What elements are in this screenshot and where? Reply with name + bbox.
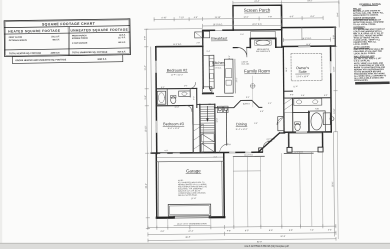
svg-text:Dining: Dining bbox=[236, 122, 247, 126]
svg-text:9' CLG.: 9' CLG. bbox=[215, 67, 222, 69]
svg-text:CLG. ABV.: CLG. ABV. bbox=[241, 62, 250, 65]
left scan margin bbox=[0, 0, 2, 249]
patio mullion line bbox=[301, 28, 303, 40]
svg-text:4'-6": 4'-6" bbox=[227, 230, 231, 232]
svg-text:SEE FIREPLACE: SEE FIREPLACE bbox=[256, 50, 271, 53]
bedroom3 east wall bbox=[192, 105, 194, 152]
sheet bottom edge line bbox=[0, 242, 390, 244]
svg-text:BUFFET: BUFFET bbox=[243, 103, 251, 105]
dim left inner line bbox=[150, 47, 153, 153]
top wall right of porch bbox=[282, 26, 335, 28]
svg-text:12'-0": 12'-0" bbox=[243, 17, 248, 19]
label owners suite bbox=[295, 66, 309, 74]
svg-text:6'-2": 6'-2" bbox=[161, 87, 165, 89]
window left wall bed2 bbox=[155, 61, 157, 73]
kitchen range bbox=[210, 73, 213, 79]
right wall upper step bbox=[334, 27, 336, 46]
owner bath vanity bbox=[294, 98, 322, 105]
door front entry bbox=[263, 141, 270, 147]
bottom scan margin bbox=[0, 243, 390, 249]
garage inner wall lines bbox=[157, 162, 159, 216]
door bedroom2 bbox=[190, 82, 196, 88]
svg-text:10'-8": 10'-8" bbox=[175, 107, 180, 109]
svg-text:SCREEN PORCH: SCREEN PORCH bbox=[72, 38, 89, 40]
stair west wall bbox=[199, 104, 201, 152]
svg-text:OPTIONAL BONUS: OPTIONAL BONUS bbox=[9, 39, 28, 42]
entry top jog bbox=[280, 132, 285, 134]
porch right wall vertical bbox=[280, 5, 282, 47]
dim bottom first line bbox=[148, 226, 336, 228]
entry diagonal wall bbox=[258, 133, 280, 152]
owner left wall bbox=[282, 47, 285, 132]
patio edge below dining bbox=[233, 170, 260, 172]
svg-text:6'-8": 6'-8" bbox=[260, 111, 264, 113]
svg-text:8'-0": 8'-0" bbox=[245, 230, 249, 232]
svg-text:LOCAL CODES.: LOCAL CODES. bbox=[354, 43, 370, 46]
dim top main line bbox=[154, 18, 323, 19]
svg-text:5'-4": 5'-4" bbox=[207, 51, 211, 53]
svg-text:4'-0": 4'-0" bbox=[160, 231, 164, 233]
svg-text:16'-0" x 8'-0" OVERHEAD DOOR: 16'-0" x 8'-0" OVERHEAD DOOR bbox=[177, 222, 207, 225]
svg-text:16'-0" R.O.: 16'-0" R.O. bbox=[302, 38, 312, 40]
mud bench box bbox=[195, 32, 203, 38]
svg-text:8'-4": 8'-4" bbox=[246, 97, 250, 99]
svg-text:9'-0": 9'-0" bbox=[229, 55, 231, 59]
svg-text:5'-0": 5'-0" bbox=[254, 123, 258, 125]
door garage entry bbox=[220, 144, 229, 153]
garage bottom wall left piece bbox=[157, 217, 174, 219]
garage door dim line bbox=[174, 224, 210, 226]
bath2 tub bbox=[157, 91, 166, 104]
svg-text:4'-0": 4'-0" bbox=[164, 150, 168, 152]
svg-text:14'-8": 14'-8" bbox=[333, 66, 335, 71]
hall east wall bbox=[225, 110, 227, 145]
svg-text:21'-8": 21'-8" bbox=[191, 198, 196, 200]
kitchen west wall bbox=[202, 30, 205, 88]
kitchen top cabinets bbox=[203, 54, 209, 56]
svg-text:FIRST FLOOR: FIRST FLOOR bbox=[9, 37, 23, 39]
svg-text:3'-0": 3'-0" bbox=[184, 85, 188, 87]
svg-text:11'-4" x 12'-0": 11'-4" x 12'-0" bbox=[235, 129, 247, 131]
title underline bbox=[4, 26, 130, 28]
garage door panel bbox=[168, 204, 211, 216]
svg-text:4'-2": 4'-2" bbox=[268, 103, 272, 105]
bedroom2 top wall bbox=[156, 45, 203, 47]
owner shower bbox=[323, 113, 330, 125]
svg-text:12'-4": 12'-4" bbox=[216, 118, 218, 123]
owner suite top wall bbox=[283, 45, 335, 47]
svg-text:HEATED SQUARE FOOTAGE: HEATED SQUARE FOOTAGE bbox=[8, 29, 60, 34]
svg-text:6'-0": 6'-0" bbox=[324, 95, 328, 97]
window owner top bbox=[298, 46, 310, 48]
dim right vertical line bbox=[334, 27, 337, 132]
svg-text:13'-8" x 16'-0": 13'-8" x 16'-0" bbox=[296, 76, 309, 78]
dim right porch line bbox=[338, 2, 340, 27]
svg-text:5'-2": 5'-2" bbox=[240, 34, 244, 36]
window bed3 front 2 bbox=[173, 153, 180, 154]
svg-text:24'-4": 24'-4" bbox=[254, 1, 259, 3]
svg-text:20'-0" R.O.: 20'-0" R.O. bbox=[252, 24, 262, 26]
svg-text:8'-0": 8'-0" bbox=[311, 16, 315, 18]
svg-text:ORDINANCES.: ORDINANCES. bbox=[354, 79, 368, 82]
svg-text:TOTAL HEATED SQ. FOOTAGE: TOTAL HEATED SQ. FOOTAGE bbox=[9, 52, 42, 56]
window bed3 front 1 bbox=[160, 153, 167, 154]
svg-text:13'-10": 13'-10" bbox=[215, 17, 222, 19]
bath2 partition bbox=[166, 89, 168, 106]
label dining bbox=[236, 122, 247, 126]
window breakfast top bbox=[215, 29, 222, 31]
dim bottom second line bbox=[148, 233, 336, 235]
garage right wall bbox=[223, 153, 226, 217]
svg-text:22'-4": 22'-4" bbox=[188, 231, 193, 233]
bedroom2 south wall bbox=[156, 87, 196, 89]
notes bottom bar bbox=[355, 81, 390, 84]
svg-text:Suite: Suite bbox=[298, 70, 306, 74]
svg-text:12'-10": 12'-10" bbox=[145, 125, 147, 132]
family room north wall segments bbox=[233, 47, 237, 49]
svg-text:Kitchen: Kitchen bbox=[212, 61, 225, 65]
owner bath north wall bbox=[284, 90, 293, 92]
dim breakfast ro line bbox=[203, 24, 282, 27]
garage note text bbox=[178, 180, 208, 200]
dim right lower line bbox=[333, 132, 336, 236]
svg-text:mls # 4237592 8 889 98 (02) fl: mls # 4237592 8 889 98 (02) floorplan.pd… bbox=[244, 245, 289, 248]
svg-text:11'-4": 11'-4" bbox=[145, 65, 147, 70]
family room ceiling fan bbox=[250, 84, 255, 89]
screen porch walls bbox=[233, 5, 282, 30]
chart outer border bbox=[4, 19, 130, 57]
porch bottom wall bbox=[233, 29, 281, 31]
dim owner ro line bbox=[283, 39, 330, 41]
svg-text:4'-0": 4'-0" bbox=[194, 17, 198, 19]
owner closet bbox=[284, 98, 292, 113]
kitchen south wall with dining bay bbox=[214, 100, 261, 108]
front porch column right bbox=[318, 147, 323, 152]
svg-text:462 S.F.: 462 S.F. bbox=[118, 41, 126, 44]
svg-text:7'-8": 7'-8" bbox=[268, 16, 272, 18]
svg-text:25'-0": 25'-0" bbox=[332, 181, 334, 186]
svg-text:Bedroom #3: Bedroom #3 bbox=[163, 122, 184, 126]
garage door lines bbox=[174, 215, 210, 217]
kitchen cabinets bbox=[209, 55, 214, 88]
label bedroom2 bbox=[167, 68, 188, 72]
garage left wall bbox=[155, 154, 158, 218]
svg-text:Garage: Garage bbox=[186, 168, 201, 173]
label breakfast bbox=[211, 37, 228, 41]
door bedroom3 bbox=[186, 105, 192, 111]
door owner suite bbox=[277, 118, 284, 125]
yard extension lines bbox=[232, 157, 235, 227]
svg-text:SQUARE FOOTAGE CHART: SQUARE FOOTAGE CHART bbox=[42, 22, 96, 27]
gross row box bbox=[12, 55, 123, 64]
svg-text:SEE ALL NOTES PAGE.: SEE ALL NOTES PAGE. bbox=[178, 194, 198, 197]
right exterior wall bbox=[330, 46, 333, 132]
svg-text:63'-0": 63'-0" bbox=[257, 241, 262, 243]
door porch to breakfast bbox=[237, 47, 247, 57]
svg-text:11'-6": 11'-6" bbox=[293, 86, 298, 88]
window dining front 1 bbox=[229, 152, 235, 153]
dimension texts bbox=[144, 0, 341, 244]
porch strip cabinet bbox=[251, 31, 276, 38]
svg-text:5'-0": 5'-0" bbox=[193, 96, 195, 100]
svg-text:TO ALL LOCAL CODES.: TO ALL LOCAL CODES. bbox=[353, 23, 376, 26]
svg-text:3'-4": 3'-4" bbox=[213, 156, 217, 158]
svg-text:9'-8": 9'-8" bbox=[333, 35, 335, 39]
svg-text:8'-4": 8'-4" bbox=[337, 12, 339, 16]
svg-text:7'-10": 7'-10" bbox=[179, 17, 184, 19]
front porch column left bbox=[287, 147, 292, 152]
hall west wall bbox=[196, 88, 198, 107]
svg-text:Bedroom #2: Bedroom #2 bbox=[167, 69, 188, 73]
header underline bbox=[4, 32, 130, 34]
svg-text:Breakfast: Breakfast bbox=[211, 37, 228, 41]
svg-text:9'-8": 9'-8" bbox=[144, 36, 146, 40]
kitchen sink bbox=[210, 61, 213, 66]
garage header line bbox=[156, 160, 223, 163]
bath2 toilet bbox=[171, 97, 176, 104]
fridge box bbox=[204, 31, 210, 38]
totals divider bbox=[5, 48, 131, 50]
svg-text:2 CAR GARAGE: 2 CAR GARAGE bbox=[72, 41, 88, 44]
svg-text:815 S.F.: 815 S.F. bbox=[118, 51, 126, 53]
svg-text:14'-0" R.O.: 14'-0" R.O. bbox=[173, 44, 182, 46]
svg-text:11'-4" x 13'-2": 11'-4" x 13'-2" bbox=[171, 74, 183, 76]
owner closet wall bbox=[292, 98, 294, 132]
bath2 south wall bbox=[156, 104, 192, 106]
bath2 vanity bbox=[179, 91, 191, 97]
bath2 east wall bbox=[189, 88, 191, 96]
owner front wall bbox=[285, 131, 332, 133]
svg-text:6'-8": 6'-8" bbox=[289, 230, 293, 232]
svg-text:8'-0": 8'-0" bbox=[290, 16, 294, 18]
stair landing bbox=[200, 131, 215, 133]
label kitchen bbox=[212, 61, 225, 65]
svg-text:5'-6": 5'-6" bbox=[301, 95, 305, 97]
laundry washer bbox=[217, 106, 228, 113]
dim left vertical line bbox=[146, 29, 148, 229]
entry wing wall bbox=[259, 148, 263, 152]
porch stoop line right bbox=[284, 152, 313, 154]
svg-text:2468 S.F.: 2468 S.F. bbox=[51, 51, 61, 54]
svg-text:32'-8": 32'-8" bbox=[280, 236, 285, 238]
wd appliance box bbox=[203, 87, 212, 93]
svg-text:5'-10": 5'-10" bbox=[162, 17, 167, 19]
svg-text:19'-2": 19'-2" bbox=[307, 0, 312, 2]
entry closet bbox=[278, 117, 284, 131]
svg-text:8'-0": 8'-0" bbox=[269, 230, 273, 232]
bed3 closet hatch bbox=[193, 124, 204, 152]
left exterior wall bbox=[155, 47, 158, 154]
label family room bbox=[244, 68, 271, 107]
owner tub bbox=[311, 113, 322, 130]
window owner front bbox=[296, 131, 307, 132]
svg-text:WALL: WALL bbox=[268, 140, 273, 143]
svg-text:12'-8": 12'-8" bbox=[306, 44, 311, 46]
door family room to porch bbox=[238, 47, 247, 56]
svg-text:36'-8": 36'-8" bbox=[185, 237, 190, 239]
svg-text:LOCAL BLDG. CODES.: LOCAL BLDG. CODES. bbox=[354, 52, 376, 55]
laundry north wall bbox=[216, 95, 233, 97]
front porch side walls bbox=[288, 133, 290, 149]
top wall left of porch bbox=[203, 29, 233, 31]
dim top porch line bbox=[233, 1, 339, 4]
window dining front 2 bbox=[245, 152, 251, 153]
garage label bbox=[186, 168, 201, 173]
svg-text:217 S.F.: 217 S.F. bbox=[118, 37, 126, 39]
garage inner dim line bbox=[157, 156, 222, 159]
center divider bbox=[67, 27, 69, 56]
svg-text:10'-0" R.O.: 10'-0" R.O. bbox=[213, 24, 223, 26]
stair east wall bbox=[214, 104, 216, 152]
svg-text:16'-0": 16'-0" bbox=[286, 67, 288, 72]
svg-text:3283 S.F.: 3283 S.F. bbox=[97, 59, 107, 61]
svg-text:22'-0": 22'-0" bbox=[146, 183, 148, 188]
svg-text:2'-8": 2'-8" bbox=[196, 42, 200, 44]
laundry south wall bbox=[203, 92, 213, 94]
window left wall bed3 bbox=[156, 121, 158, 133]
svg-text:456 S.F.: 456 S.F. bbox=[52, 38, 60, 41]
svg-text:12'-0" R.O.: 12'-0" R.O. bbox=[294, 151, 303, 153]
svg-text:8'-0": 8'-0" bbox=[290, 94, 294, 96]
svg-text:3'-6": 3'-6" bbox=[227, 144, 231, 146]
stair top wall bbox=[197, 103, 215, 105]
svg-text:16'-0" R.O.: 16'-0" R.O. bbox=[244, 155, 253, 157]
front porch outline bbox=[288, 133, 323, 152]
svg-text:Family Room: Family Room bbox=[244, 68, 270, 73]
pantry shelves below stairs bbox=[202, 134, 215, 152]
svg-text:2012 S.F.: 2012 S.F. bbox=[51, 36, 60, 38]
owner wc toilet bbox=[295, 123, 300, 130]
owner bath partition bbox=[307, 111, 309, 132]
svg-text:Screen Porch: Screen Porch bbox=[244, 8, 271, 13]
stairs treads bbox=[200, 107, 215, 130]
kitchen island counter bbox=[224, 59, 233, 93]
window right wall bbox=[330, 61, 332, 73]
svg-text:7'-4": 7'-4" bbox=[310, 230, 314, 232]
front wall bbox=[151, 151, 262, 154]
owner tub platform bbox=[309, 111, 325, 132]
label bedroom3 bbox=[163, 122, 184, 126]
porch stoop line left bbox=[233, 155, 264, 157]
svg-text:13'-2": 13'-2" bbox=[236, 77, 238, 82]
svg-text:5'-8": 5'-8" bbox=[145, 95, 147, 99]
svg-text:TOTAL UNHEATED SQ. FOOTAGE: TOTAL UNHEATED SQ. FOOTAGE bbox=[72, 51, 108, 55]
dim bottom third line bbox=[148, 239, 336, 241]
garage bottom wall right piece bbox=[210, 216, 224, 218]
svg-text:11'-0" x 12'-8": 11'-0" x 12'-8" bbox=[167, 128, 179, 130]
svg-text:13'-8": 13'-8" bbox=[334, 108, 336, 113]
stair arrow bbox=[206, 106, 208, 119]
svg-text:4'-4": 4'-4" bbox=[328, 229, 332, 231]
